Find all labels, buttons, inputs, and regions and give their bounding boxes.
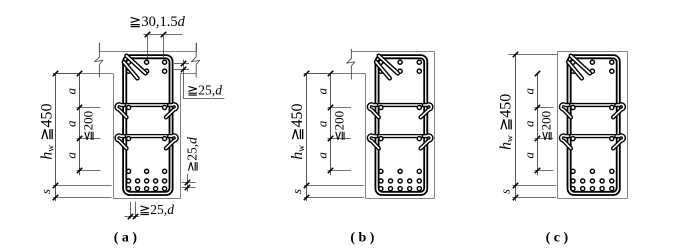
svg-text:( c ): ( c ) [546, 230, 569, 245]
svg-text:a: a [64, 120, 79, 127]
svg-text:s: s [39, 189, 53, 194]
svg-text:≧25,d: ≧25,d [139, 202, 174, 217]
svg-text:( b ): ( b ) [350, 230, 374, 245]
svg-text:a: a [64, 87, 79, 94]
svg-text:a: a [315, 152, 330, 159]
svg-text:( a ): ( a ) [114, 230, 138, 245]
svg-text:a: a [522, 120, 537, 127]
svg-text:a: a [315, 120, 330, 127]
svg-text:≦200: ≦200 [538, 111, 553, 141]
svg-text:s: s [290, 189, 304, 194]
svg-text:≧25,d: ≧25,d [187, 83, 222, 98]
svg-text:≦200: ≦200 [332, 111, 347, 141]
svg-text:≧25,d: ≧25,d [184, 137, 199, 172]
svg-text:a: a [522, 152, 537, 159]
svg-text:a: a [64, 152, 79, 159]
svg-text:s: s [499, 189, 513, 194]
svg-text:a: a [315, 87, 330, 94]
svg-text:≧30,1.5d: ≧30,1.5d [129, 14, 185, 30]
svg-text:≦200: ≦200 [80, 111, 95, 141]
svg-text:a: a [522, 87, 537, 94]
